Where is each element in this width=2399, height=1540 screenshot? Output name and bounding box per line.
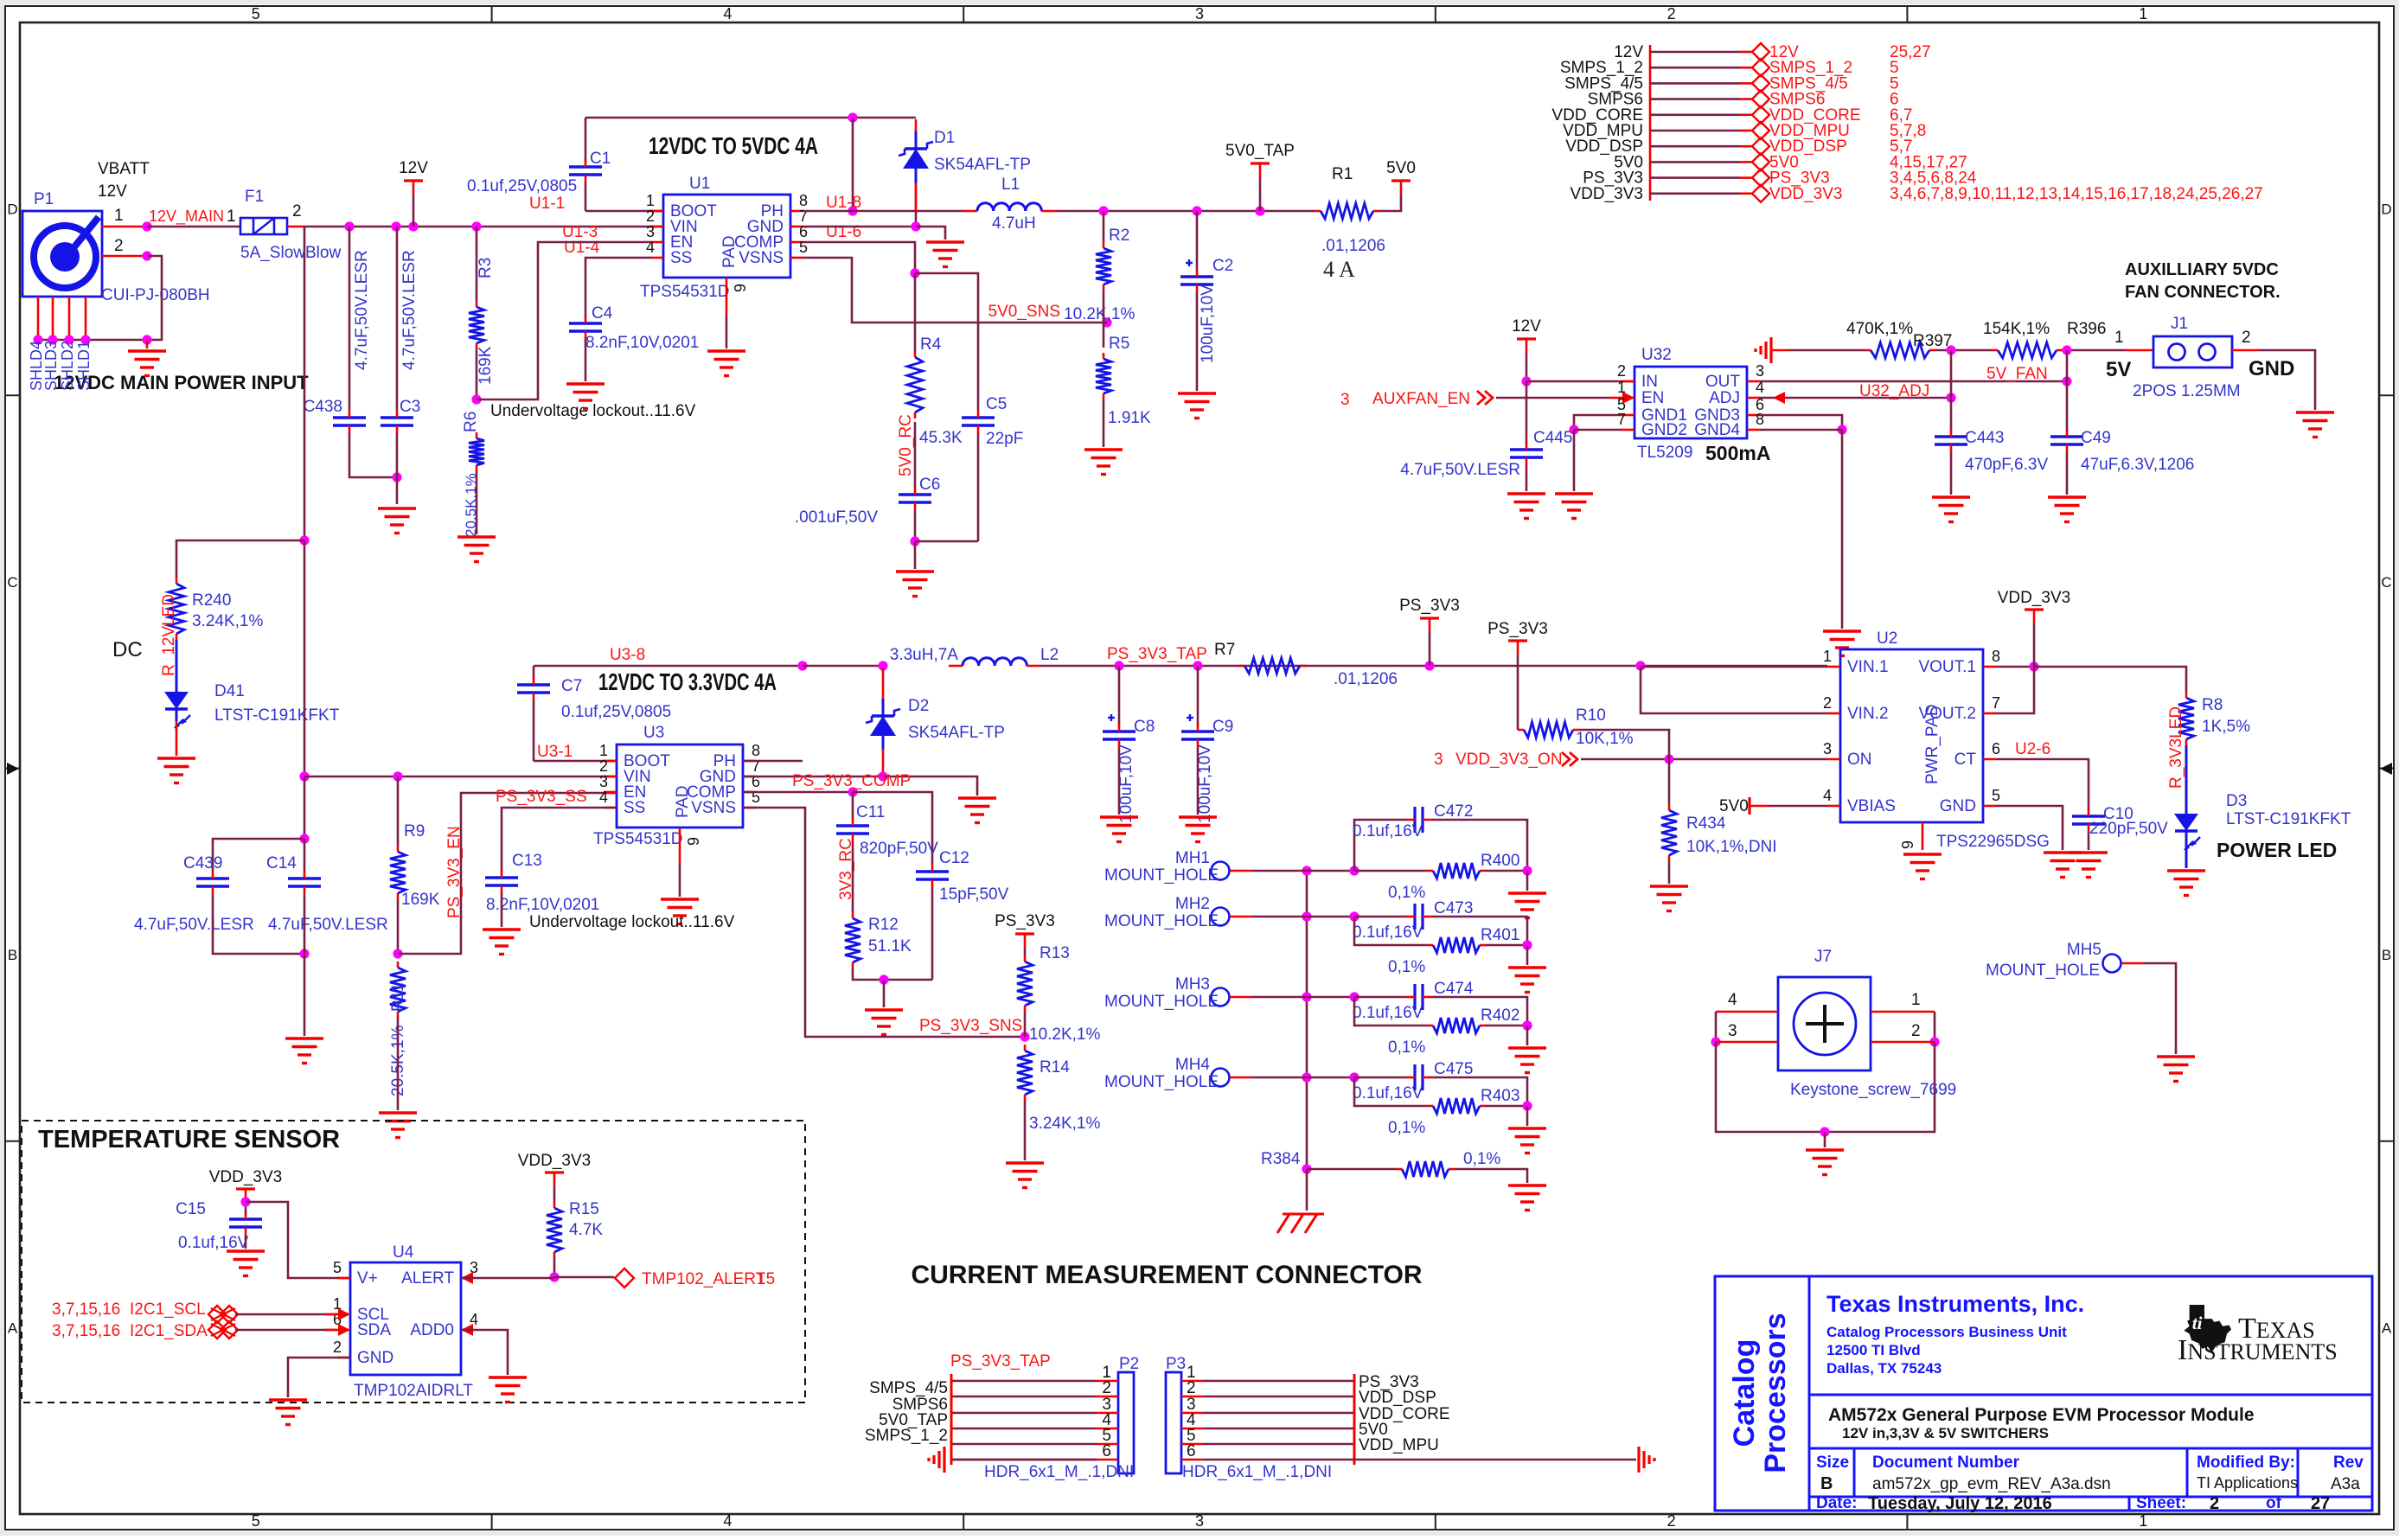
svg-text:10K,1%,DNI: 10K,1%,DNI: [1686, 838, 1777, 856]
svg-text:12VDC TO 5VDC 4A: 12VDC TO 5VDC 4A: [649, 132, 818, 159]
svg-text:2: 2: [2242, 329, 2251, 347]
svg-text:1: 1: [114, 207, 124, 225]
svg-text:TMP102_ALERT: TMP102_ALERT: [642, 1270, 766, 1288]
svg-text:P1: P1: [34, 190, 54, 208]
svg-text:Modified By:: Modified By:: [2197, 1454, 2295, 1472]
svg-text:PS_3V3_EN: PS_3V3_EN: [445, 826, 464, 918]
svg-text:TMP102AIDRLT: TMP102AIDRLT: [354, 1382, 473, 1400]
svg-text:2: 2: [1667, 1512, 1676, 1530]
svg-text:GND: GND: [2249, 357, 2294, 380]
svg-text:3: 3: [1756, 362, 1764, 380]
svg-text:C472: C472: [1434, 802, 1473, 821]
svg-text:4: 4: [723, 5, 732, 22]
svg-text:5V0_SNS: 5V0_SNS: [988, 303, 1060, 321]
svg-text:C1: C1: [590, 150, 611, 168]
svg-text:SK54AFL-TP: SK54AFL-TP: [908, 724, 1005, 742]
svg-text:CT: CT: [1954, 751, 1977, 769]
svg-text:C13: C13: [512, 852, 542, 870]
svg-text:SHLD2: SHLD2: [59, 341, 76, 391]
svg-text:C475: C475: [1434, 1060, 1473, 1078]
svg-text:U2-6: U2-6: [2015, 740, 2050, 758]
svg-text:MH1: MH1: [1175, 849, 1210, 867]
svg-text:Document Number: Document Number: [1872, 1454, 2020, 1472]
svg-text:R12: R12: [868, 916, 899, 934]
svg-text:PS_3V3_TAP: PS_3V3_TAP: [1107, 645, 1207, 663]
svg-text:0.1uf,16V: 0.1uf,16V: [1353, 1084, 1423, 1102]
svg-text:0,1%: 0,1%: [1388, 1119, 1425, 1137]
svg-text:5V: 5V: [2106, 358, 2131, 381]
svg-text:C15: C15: [176, 1200, 206, 1218]
svg-text:OUT: OUT: [1705, 373, 1741, 391]
svg-text:GND2: GND2: [1641, 421, 1687, 439]
svg-text:8.2nF,10V,0201: 8.2nF,10V,0201: [486, 896, 599, 914]
svg-text:POWER LED: POWER LED: [2217, 839, 2337, 861]
svg-text:GND: GND: [1940, 797, 1976, 815]
svg-text:15: 15: [757, 1270, 775, 1288]
svg-text:I2C1_SDA: I2C1_SDA: [130, 1322, 208, 1340]
svg-text:0.1uf,25V,0805: 0.1uf,25V,0805: [467, 177, 577, 195]
svg-text:27: 27: [2311, 1494, 2330, 1513]
svg-text:0.1uf,16V: 0.1uf,16V: [1353, 822, 1423, 840]
svg-text:LTST-C191KFKT: LTST-C191KFKT: [2226, 810, 2351, 828]
svg-text:P2: P2: [1119, 1355, 1139, 1373]
svg-text:MH4: MH4: [1175, 1056, 1211, 1074]
svg-text:R434: R434: [1686, 815, 1726, 833]
svg-text:4: 4: [723, 1512, 732, 1530]
svg-text:.01,1206: .01,1206: [1334, 670, 1398, 688]
svg-text:3: 3: [646, 223, 655, 240]
svg-text:3: 3: [1434, 751, 1443, 769]
svg-text:R8: R8: [2202, 696, 2223, 714]
svg-text:3,4,6,7,8,9,10,11,12,13,14,15,: 3,4,6,7,8,9,10,11,12,13,14,15,16,17,18,2…: [1890, 185, 2263, 203]
svg-text:3: 3: [1195, 5, 1204, 22]
svg-text:5: 5: [1992, 787, 2000, 804]
svg-text:4.7uF,50V.LESR: 4.7uF,50V.LESR: [353, 250, 371, 370]
svg-text:0,1%: 0,1%: [1388, 884, 1425, 902]
svg-text:6: 6: [1102, 1442, 1111, 1460]
svg-text:4.7K: 4.7K: [569, 1221, 603, 1239]
svg-text:.001uF,50V: .001uF,50V: [795, 508, 878, 527]
svg-text:1: 1: [2114, 329, 2124, 347]
svg-text:R401: R401: [1481, 926, 1519, 944]
svg-text:D: D: [2381, 201, 2391, 218]
svg-text:R13: R13: [1040, 944, 1070, 962]
svg-text:R4: R4: [920, 335, 942, 354]
svg-text:12VDC TO 3.3VDC 4A: 12VDC TO 3.3VDC 4A: [598, 668, 777, 695]
svg-text:EN: EN: [1641, 389, 1664, 407]
svg-text:MOUNT_HOLE: MOUNT_HOLE: [1104, 912, 1219, 930]
svg-text:VDD_3V3: VDD_3V3: [1571, 185, 1644, 203]
svg-text:47uF,6.3V,1206: 47uF,6.3V,1206: [2081, 456, 2194, 474]
svg-text:C: C: [7, 574, 17, 591]
svg-text:R6: R6: [462, 412, 480, 432]
svg-text:L1: L1: [1001, 176, 1020, 194]
svg-text:R15: R15: [569, 1200, 599, 1218]
svg-text:U2: U2: [1877, 629, 1897, 648]
svg-text:D1: D1: [934, 129, 955, 147]
svg-text:AUXFAN_EN: AUXFAN_EN: [1372, 390, 1470, 408]
svg-text:4.7uF,50V.LESR: 4.7uF,50V.LESR: [268, 916, 388, 934]
svg-text:7: 7: [1992, 694, 2000, 712]
svg-text:C438: C438: [304, 398, 342, 416]
svg-text:R397: R397: [1913, 332, 1952, 350]
svg-text:2: 2: [1823, 694, 1832, 712]
svg-text:DC: DC: [112, 638, 143, 661]
svg-text:470pF,6.3V: 470pF,6.3V: [1965, 456, 2048, 474]
svg-text:am572x_gp_evm_REV_A3a.dsn: am572x_gp_evm_REV_A3a.dsn: [1872, 1475, 2111, 1493]
svg-text:C6: C6: [919, 476, 940, 494]
svg-text:C443: C443: [1965, 429, 2004, 447]
svg-text:4: 4: [1823, 787, 1832, 804]
svg-text:169K: 169K: [477, 346, 495, 385]
svg-text:0.1uf,25V,0805: 0.1uf,25V,0805: [561, 703, 671, 721]
svg-text:2: 2: [646, 208, 655, 225]
svg-text:820pF,50V: 820pF,50V: [860, 840, 938, 858]
svg-text:8: 8: [1992, 648, 2000, 665]
svg-text:7: 7: [1617, 411, 1626, 428]
svg-text:of: of: [2266, 1494, 2282, 1512]
svg-text:PS_3V3_SS: PS_3V3_SS: [496, 788, 587, 806]
svg-text:10.2K,1%: 10.2K,1%: [1029, 1026, 1100, 1044]
svg-text:Dallas, TX 75243: Dallas, TX 75243: [1826, 1360, 1942, 1377]
svg-text:Undervoltage lockout..11.6V: Undervoltage lockout..11.6V: [490, 402, 696, 420]
svg-text:R_3V3LED: R_3V3LED: [2167, 706, 2185, 789]
svg-text:9: 9: [685, 837, 702, 846]
svg-text:5V_FAN: 5V_FAN: [1986, 365, 2048, 383]
svg-text:12V_MAIN: 12V_MAIN: [149, 208, 224, 226]
svg-text:LTST-C191KFKT: LTST-C191KFKT: [214, 706, 340, 725]
svg-text:R5: R5: [1109, 335, 1129, 353]
svg-text:Texas Instruments, Inc.: Texas Instruments, Inc.: [1826, 1291, 2084, 1317]
svg-text:MOUNT_HOLE: MOUNT_HOLE: [1104, 1073, 1219, 1091]
svg-text:10K,1%: 10K,1%: [1576, 730, 1634, 748]
svg-text:5V0_RC: 5V0_RC: [897, 414, 915, 476]
svg-text:8.2nF,10V,0201: 8.2nF,10V,0201: [585, 334, 699, 352]
svg-text:VSNS: VSNS: [739, 249, 784, 267]
svg-text:3,7,15,16: 3,7,15,16: [52, 1322, 120, 1340]
svg-text:D3: D3: [2226, 792, 2247, 810]
svg-text:R400: R400: [1481, 852, 1519, 870]
svg-text:2: 2: [599, 757, 608, 775]
svg-text:SDA: SDA: [357, 1321, 391, 1339]
svg-text:1: 1: [599, 742, 608, 759]
svg-text:VBIAS: VBIAS: [1847, 797, 1896, 815]
svg-text:U1-8: U1-8: [826, 194, 861, 212]
svg-text:0.1uf,16V: 0.1uf,16V: [1353, 1004, 1423, 1022]
svg-text:9: 9: [732, 284, 749, 292]
svg-text:9: 9: [1899, 840, 1916, 849]
svg-text:3: 3: [599, 773, 608, 790]
svg-text:10.2K,1%: 10.2K,1%: [1064, 305, 1135, 323]
svg-text:R1: R1: [1332, 165, 1353, 183]
svg-text:C9: C9: [1212, 718, 1233, 736]
svg-text:SHLD3: SHLD3: [42, 341, 60, 391]
svg-text:R2: R2: [1109, 227, 1129, 245]
svg-text:PWR_PAD: PWR_PAD: [1923, 704, 1942, 784]
svg-text:ON: ON: [1847, 751, 1872, 769]
svg-text:FAN CONNECTOR.: FAN CONNECTOR.: [2125, 283, 2281, 302]
svg-text:MH3: MH3: [1175, 975, 1210, 994]
svg-text:SHLD1: SHLD1: [75, 341, 93, 391]
svg-text:2: 2: [1187, 1379, 1196, 1397]
svg-text:MH5: MH5: [2067, 941, 2102, 959]
svg-text:0,1%: 0,1%: [1463, 1150, 1500, 1168]
svg-text:V+: V+: [357, 1269, 378, 1288]
svg-text:3.24K,1%: 3.24K,1%: [192, 612, 263, 630]
svg-text:R11: R11: [389, 983, 407, 1012]
svg-text:Rev: Rev: [2333, 1454, 2364, 1472]
svg-text:A: A: [2382, 1320, 2392, 1336]
svg-text:PS_3V3_SNS: PS_3V3_SNS: [919, 1017, 1022, 1035]
svg-text:TI Applications: TI Applications: [2197, 1474, 2298, 1492]
svg-text:2: 2: [1617, 362, 1626, 380]
svg-text:TPS22965DSG: TPS22965DSG: [1936, 833, 2050, 851]
svg-text:VOUT.1: VOUT.1: [1918, 658, 1976, 676]
svg-text:U32: U32: [1641, 346, 1672, 364]
svg-text:J7: J7: [1814, 948, 1832, 966]
svg-text:AM572x General Purpose EVM Pro: AM572x General Purpose EVM Processor Mod…: [1828, 1405, 2255, 1425]
svg-text:VDD_3V3: VDD_3V3: [1998, 589, 2071, 607]
svg-text:R10: R10: [1576, 706, 1606, 725]
svg-text:D2: D2: [908, 697, 929, 715]
svg-text:VDD_3V3: VDD_3V3: [518, 1152, 592, 1170]
svg-text:R402: R402: [1481, 1006, 1519, 1025]
svg-text:3,7,15,16: 3,7,15,16: [52, 1300, 120, 1319]
svg-text:Sheet:: Sheet:: [2136, 1494, 2186, 1512]
svg-text:3.3uH,7A: 3.3uH,7A: [890, 646, 959, 664]
svg-text:R7: R7: [1214, 641, 1235, 659]
svg-text:GND4: GND4: [1694, 421, 1740, 439]
svg-text:C5: C5: [986, 395, 1007, 413]
svg-text:R240: R240: [192, 591, 231, 610]
svg-text:VSNS: VSNS: [691, 799, 736, 817]
svg-text:MOUNT_HOLE: MOUNT_HOLE: [1104, 866, 1219, 885]
svg-text:TPS54531D: TPS54531D: [593, 830, 683, 848]
svg-text:Catalog: Catalog: [1728, 1339, 1761, 1447]
svg-text:5V0: 5V0: [1719, 797, 1749, 815]
svg-text:PAD: PAD: [720, 235, 739, 268]
svg-text:470K,1%: 470K,1%: [1846, 320, 1913, 338]
svg-text:4.7uH: 4.7uH: [992, 214, 1036, 233]
svg-text:2: 2: [1911, 1022, 1921, 1040]
svg-text:SMPS_4/5: SMPS_4/5: [869, 1379, 948, 1397]
svg-text:PS_3V3: PS_3V3: [1487, 620, 1548, 638]
svg-text:CUI-PJ-080BH: CUI-PJ-080BH: [101, 286, 210, 304]
svg-text:1: 1: [1823, 648, 1832, 665]
svg-text:D: D: [7, 201, 17, 218]
svg-text:5V0_TAP: 5V0_TAP: [1225, 142, 1295, 160]
svg-text:R396: R396: [2067, 320, 2106, 338]
svg-text:MOUNT_HOLE: MOUNT_HOLE: [1104, 993, 1219, 1011]
svg-text:220pF,50V: 220pF,50V: [2089, 820, 2168, 838]
svg-text:Size: Size: [1816, 1454, 1849, 1472]
svg-text:VIN.2: VIN.2: [1847, 705, 1889, 723]
svg-text:SS: SS: [670, 249, 692, 267]
svg-text:U32_ADJ: U32_ADJ: [1859, 382, 1929, 400]
svg-text:C3: C3: [400, 398, 420, 416]
svg-text:.01,1206: .01,1206: [1321, 237, 1385, 255]
svg-text:1: 1: [646, 192, 655, 209]
svg-text:Keystone_screw_7699: Keystone_screw_7699: [1790, 1081, 1956, 1099]
svg-text:B: B: [2382, 947, 2391, 963]
svg-text:6: 6: [1992, 740, 2000, 757]
svg-text:U3-8: U3-8: [610, 646, 645, 664]
svg-text:R9: R9: [404, 822, 425, 840]
svg-text:AUXILLIARY 5VDC: AUXILLIARY 5VDC: [2125, 260, 2279, 279]
svg-text:C473: C473: [1434, 899, 1473, 917]
svg-text:U4: U4: [393, 1243, 414, 1262]
svg-text:Date:: Date:: [1816, 1494, 1858, 1512]
svg-text:C474: C474: [1434, 980, 1474, 998]
svg-text:ti: ti: [2192, 1313, 2203, 1333]
svg-text:C49: C49: [2081, 429, 2111, 447]
svg-text:8: 8: [1756, 411, 1764, 428]
svg-text:6: 6: [1187, 1442, 1196, 1460]
svg-text:A: A: [8, 1320, 18, 1336]
svg-text:R384: R384: [1261, 1150, 1301, 1168]
svg-text:C12: C12: [939, 849, 969, 867]
svg-text:VBATT: VBATT: [98, 160, 150, 178]
svg-text:B: B: [1820, 1474, 1833, 1493]
svg-text:12V: 12V: [399, 159, 428, 177]
svg-text:1.91K: 1.91K: [1108, 409, 1151, 427]
svg-text:1: 1: [2139, 1512, 2147, 1530]
svg-text:12V in,3,3V & 5V SWITCHERS: 12V in,3,3V & 5V SWITCHERS: [1842, 1425, 2049, 1441]
svg-text:0.1uf,16V: 0.1uf,16V: [178, 1234, 249, 1252]
svg-text:4.7uF,50V.LESR: 4.7uF,50V.LESR: [400, 250, 419, 370]
svg-text:1: 1: [2139, 5, 2147, 22]
svg-text:R3: R3: [477, 258, 495, 278]
svg-text:VDD_3V3: VDD_3V3: [1769, 185, 1843, 203]
svg-text:D41: D41: [214, 682, 245, 700]
svg-text:2POS 1.25MM: 2POS 1.25MM: [2133, 382, 2241, 400]
svg-text:CURRENT MEASUREMENT CONNECTO: CURRENT MEASUREMENT CONNECTOR: [911, 1261, 1422, 1289]
svg-text:IN: IN: [1641, 373, 1658, 391]
svg-text:1: 1: [1617, 379, 1626, 396]
svg-text:C8: C8: [1134, 718, 1155, 736]
svg-text:I2C1_SCL: I2C1_SCL: [130, 1300, 206, 1319]
svg-text:L2: L2: [1040, 646, 1059, 664]
svg-text:100uF,10V: 100uF,10V: [1199, 284, 1217, 363]
svg-text:2: 2: [2210, 1494, 2219, 1513]
svg-text:TEMPERATURE SENSOR: TEMPERATURE SENSOR: [38, 1126, 340, 1153]
svg-text:0,1%: 0,1%: [1388, 958, 1425, 976]
svg-text:B: B: [8, 947, 17, 963]
svg-text:3: 3: [1195, 1512, 1204, 1530]
svg-text:MH2: MH2: [1175, 895, 1210, 913]
svg-text:1: 1: [1911, 991, 1921, 1009]
svg-text:2: 2: [1667, 5, 1676, 22]
svg-text:4 A: 4 A: [1323, 257, 1355, 282]
svg-text:5: 5: [333, 1259, 342, 1276]
svg-text:154K,1%: 154K,1%: [1983, 320, 2050, 338]
svg-text:C4: C4: [592, 304, 613, 323]
svg-text:3: 3: [1340, 391, 1350, 409]
svg-text:PAD: PAD: [674, 785, 692, 818]
svg-text:4.7uF,50V.LESR: 4.7uF,50V.LESR: [1400, 461, 1520, 479]
svg-text:3: 3: [1728, 1022, 1737, 1040]
svg-text:VDD_DSP: VDD_DSP: [1359, 1389, 1436, 1407]
svg-text:C7: C7: [561, 677, 582, 695]
svg-text:3: 3: [1823, 740, 1832, 757]
svg-text:INSTRUMENTS: INSTRUMENTS: [2178, 1334, 2338, 1366]
svg-text:12500 TI Blvd: 12500 TI Blvd: [1826, 1342, 1921, 1358]
svg-text:5: 5: [252, 5, 260, 22]
svg-text:J1: J1: [2171, 315, 2188, 333]
svg-text:0,1%: 0,1%: [1388, 1038, 1425, 1057]
svg-text:HDR_6x1_M_.1,DNI: HDR_6x1_M_.1,DNI: [984, 1463, 1134, 1481]
svg-text:MOUNT_HOLE: MOUNT_HOLE: [1986, 962, 2100, 980]
svg-text:15pF,50V: 15pF,50V: [939, 885, 1009, 904]
svg-text:3.24K,1%: 3.24K,1%: [1029, 1115, 1100, 1133]
svg-text:P3: P3: [1166, 1355, 1186, 1373]
svg-text:22pF: 22pF: [986, 430, 1023, 448]
svg-text:12V: 12V: [1512, 317, 1541, 335]
svg-text:R14: R14: [1040, 1058, 1070, 1077]
svg-text:F1: F1: [245, 188, 264, 206]
svg-text:VDD_3V3_ON: VDD_3V3_ON: [1455, 751, 1563, 769]
svg-text:U3: U3: [643, 724, 664, 742]
svg-text:U1-1: U1-1: [529, 195, 565, 213]
svg-text:SMPS_1_2: SMPS_1_2: [865, 1427, 948, 1445]
svg-text:TL5209: TL5209: [1637, 444, 1692, 462]
svg-text:Tuesday, July 12, 2016: Tuesday, July 12, 2016: [1868, 1494, 2052, 1513]
svg-text:Processors: Processors: [1759, 1313, 1792, 1473]
svg-text:2: 2: [114, 237, 124, 255]
svg-text:HDR_6x1_M_.1,DNI: HDR_6x1_M_.1,DNI: [1182, 1463, 1332, 1481]
svg-text:SK54AFL-TP: SK54AFL-TP: [934, 156, 1031, 174]
svg-text:169K: 169K: [401, 891, 440, 909]
svg-text:Catalog Processors Business: Catalog Processors Business Unit: [1826, 1324, 2067, 1340]
svg-text:500mA: 500mA: [1705, 442, 1770, 464]
svg-text:U3-1: U3-1: [537, 743, 573, 761]
svg-text:C: C: [2381, 574, 2391, 591]
svg-text:51.1K: 51.1K: [868, 937, 912, 955]
svg-text:C14: C14: [266, 854, 297, 872]
svg-text:8: 8: [752, 742, 760, 759]
svg-text:5: 5: [252, 1512, 260, 1530]
svg-text:PS_3V3: PS_3V3: [1399, 597, 1460, 615]
svg-text:2: 2: [292, 202, 302, 220]
svg-text:C2: C2: [1212, 257, 1233, 275]
svg-text:GND: GND: [357, 1349, 393, 1367]
svg-text:0.1uf,16V: 0.1uf,16V: [1353, 923, 1423, 942]
svg-text:ADJ: ADJ: [1709, 389, 1740, 407]
svg-text:45.3K: 45.3K: [919, 429, 963, 447]
svg-text:R403: R403: [1481, 1087, 1519, 1105]
svg-text:SS: SS: [624, 799, 645, 817]
svg-text:1: 1: [227, 208, 236, 226]
svg-text:C439: C439: [183, 854, 222, 872]
svg-text:A3a: A3a: [2331, 1475, 2360, 1493]
svg-text:ADD0: ADD0: [410, 1321, 454, 1339]
svg-text:TPS54531D: TPS54531D: [640, 283, 730, 301]
svg-text:VIN.1: VIN.1: [1847, 658, 1889, 676]
svg-text:8: 8: [799, 192, 808, 209]
svg-text:ALERT: ALERT: [401, 1269, 454, 1288]
svg-text:PS_3V3: PS_3V3: [995, 912, 1055, 930]
svg-text:VDD_MPU: VDD_MPU: [1359, 1436, 1439, 1454]
svg-text:5A_SlowBlow: 5A_SlowBlow: [240, 244, 341, 262]
svg-text:4.7uF,50V.LESR: 4.7uF,50V.LESR: [134, 916, 254, 934]
svg-text:Undervoltage lockout..11.6V: Undervoltage lockout..11.6V: [529, 913, 735, 931]
svg-text:1K,5%: 1K,5%: [2202, 718, 2250, 736]
svg-text:2: 2: [1102, 1379, 1111, 1397]
svg-text:4: 4: [1728, 991, 1737, 1009]
svg-text:5V0: 5V0: [1386, 159, 1416, 177]
svg-text:C445: C445: [1533, 429, 1572, 447]
svg-text:U1: U1: [689, 175, 710, 193]
